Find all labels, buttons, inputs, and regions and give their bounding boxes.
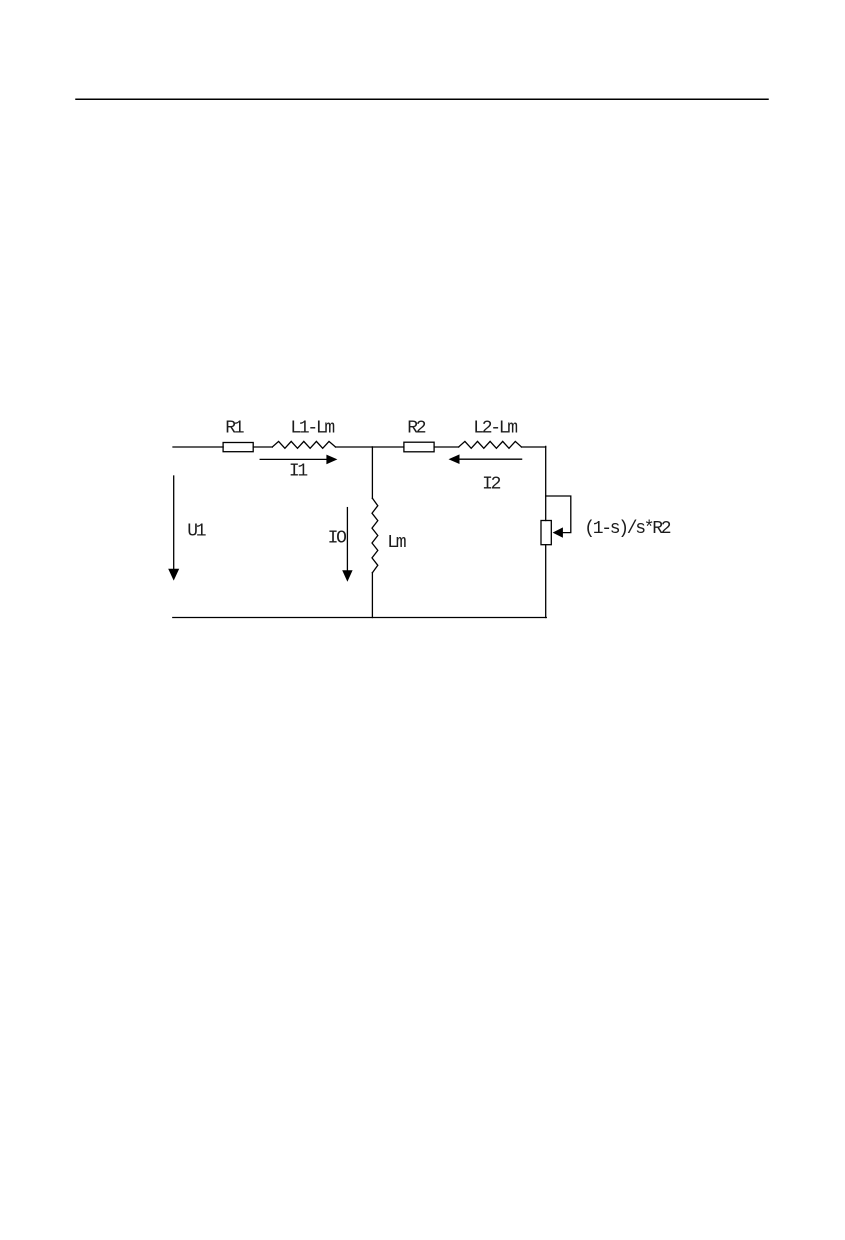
arrow I0 head (342, 570, 352, 582)
wire right branch upper (545, 446, 547, 520)
wire R2 to L2-Lm (434, 446, 459, 448)
arrow I1 line (260, 458, 327, 460)
arrow I2 head (449, 454, 460, 464)
arrow U1 line (173, 476, 175, 570)
rheostat arrow into resistor (553, 527, 563, 537)
arrow I1 head (326, 455, 337, 465)
svg-text:R2: R2 (407, 419, 426, 439)
svg-text:IO: IO (328, 529, 347, 549)
header rule (76, 98, 768, 100)
arrow I0 line (346, 508, 348, 571)
svg-text:R1: R1 (225, 419, 244, 439)
arrow U1 head (168, 569, 179, 581)
wire L1-Lm to node T (336, 446, 373, 448)
wire rheostat tap loop (546, 496, 571, 533)
node T wire to R2 (372, 446, 404, 448)
svg-text:Lm: Lm (387, 533, 406, 553)
wire top-left input to R1 (173, 446, 223, 448)
arrow I2 line (459, 458, 522, 460)
resistor R1 (223, 443, 253, 452)
bottom wire (173, 617, 547, 619)
inductor L1-Lm (272, 441, 335, 448)
resistor R2 (404, 442, 434, 452)
resistor (1-s)/s*R2 (541, 521, 551, 545)
svg-text:L2-Lm: L2-Lm (473, 419, 517, 439)
wire center branch upper (371, 447, 373, 498)
svg-text:U1: U1 (187, 522, 206, 542)
wire right branch lower (545, 545, 547, 618)
inductor Lm (372, 498, 378, 572)
wire center branch lower (371, 573, 373, 618)
wire R1 to L1-Lm (253, 446, 272, 448)
svg-text:I1: I1 (289, 462, 308, 482)
svg-text:(1-s)/s*R2: (1-s)/s*R2 (584, 519, 671, 539)
inductor L2-Lm (459, 441, 522, 448)
svg-text:L1-Lm: L1-Lm (290, 419, 334, 439)
wire L2-Lm to right corner (522, 446, 546, 448)
svg-text:I2: I2 (482, 475, 501, 495)
